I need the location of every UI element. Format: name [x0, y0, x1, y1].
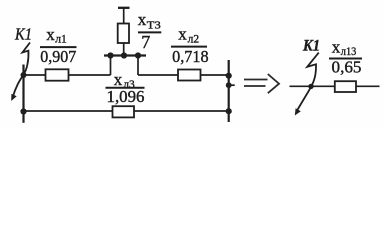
wire right circuit right segment	[356, 85, 380, 87]
wire right circuit left segment	[290, 85, 335, 87]
label x_t3 fraction	[138, 10, 162, 52]
wire lower line right segment	[134, 110, 229, 112]
resistor x_l13	[335, 81, 356, 92]
junction dot right bus lower	[226, 108, 232, 114]
wire upper line left segment	[24, 74, 46, 76]
junction dot bridge right	[135, 52, 141, 58]
junction dot right bus middle	[226, 82, 232, 88]
svg-text:0,65: 0,65	[332, 57, 362, 76]
resistor x_t3 (vertical)	[118, 24, 129, 44]
svg-text:x: x	[178, 25, 187, 44]
label x_l13 fraction	[329, 38, 362, 77]
resistor x_l3	[113, 106, 135, 117]
junction dot bridge middle	[121, 52, 127, 58]
svg-text:л13: л13	[341, 46, 357, 58]
junction dot left lower	[20, 108, 26, 114]
fault arrow K1 (left lightning bolt)	[11, 43, 30, 102]
svg-text:л1: л1	[55, 34, 67, 46]
terminal bar of x_t3	[118, 7, 130, 9]
wire bridge over (raised node)	[111, 56, 139, 76]
label x_l1 fraction	[40, 25, 77, 66]
svg-text:Т3: Т3	[147, 19, 162, 31]
label x_l3 fraction	[106, 70, 145, 106]
junction dot right bus upper	[226, 73, 232, 79]
wire x_t3 branch lower lead	[123, 43, 125, 56]
wire upper line right segment	[138, 74, 178, 76]
svg-text:1,096: 1,096	[107, 87, 145, 106]
svg-text:K1: K1	[14, 25, 32, 44]
svg-text:7: 7	[141, 32, 150, 52]
resistor x_l1	[46, 69, 69, 80]
left bus bar	[22, 65, 24, 123]
label x_l2 fraction	[171, 25, 209, 67]
svg-text:K1: K1	[302, 38, 320, 55]
node bus bar of bridge	[104, 54, 146, 56]
wire x_t3 branch upper lead	[123, 8, 125, 24]
wire lower line left segment	[24, 110, 113, 112]
junction dot right circuit fault point	[308, 84, 313, 89]
svg-text:0,718: 0,718	[172, 47, 209, 66]
right bus bar	[228, 60, 230, 122]
svg-text:0,907: 0,907	[40, 47, 76, 66]
wire stub from right bus	[229, 84, 235, 86]
svg-text:л2: л2	[188, 33, 200, 45]
svg-text:x: x	[332, 38, 341, 57]
wire upper line middle segment	[69, 74, 111, 76]
junction dot left upper	[21, 72, 27, 78]
svg-text:x: x	[138, 10, 147, 29]
junction dot bridge left	[107, 52, 113, 58]
equivalence double arrow	[244, 74, 279, 93]
svg-text:x: x	[46, 25, 55, 44]
resistor x_l2	[178, 70, 201, 81]
wire upper line to right bus	[201, 74, 229, 76]
fault arrow K1 (right lightning bolt)	[295, 53, 319, 116]
